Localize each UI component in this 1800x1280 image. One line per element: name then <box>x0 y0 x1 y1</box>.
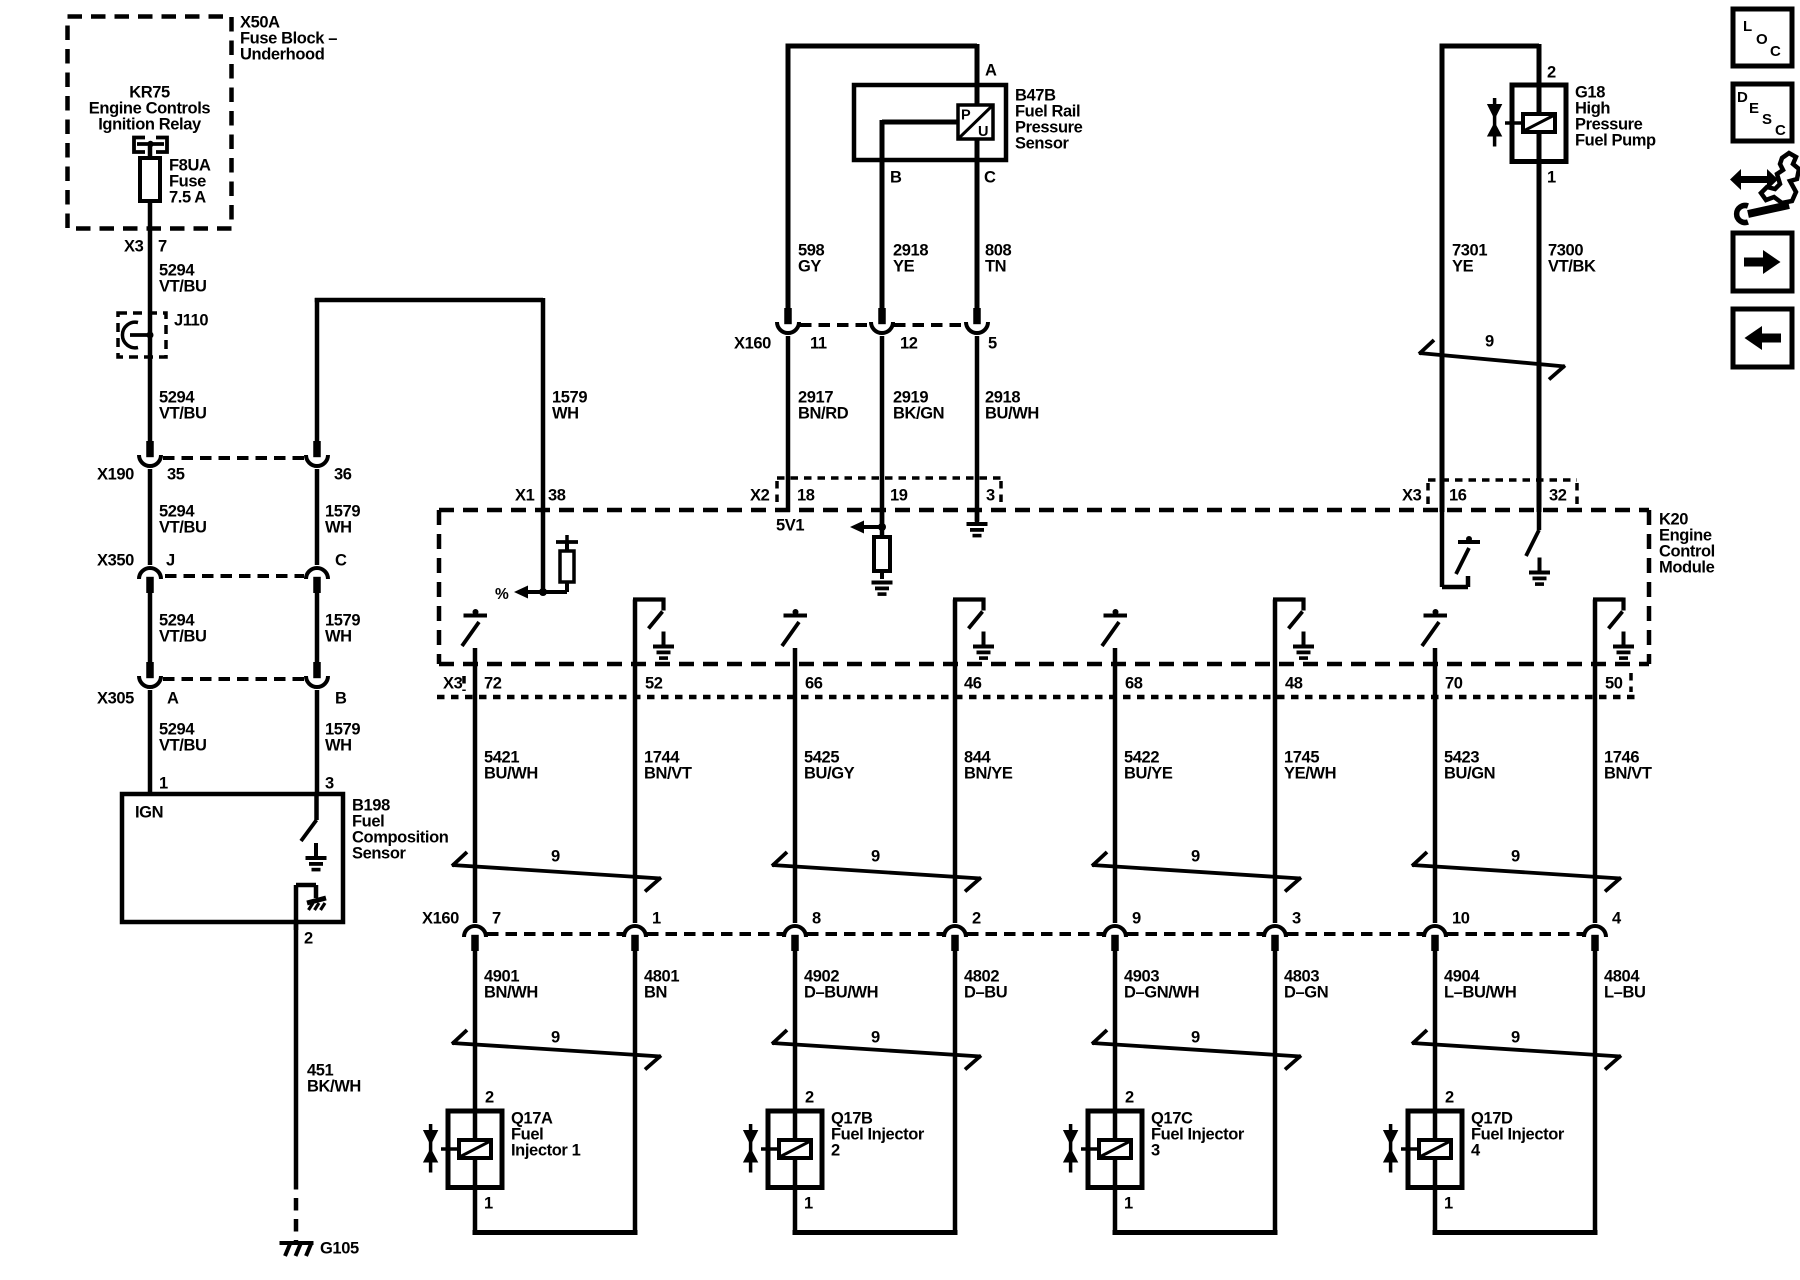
connector X1 pin 38 labels <box>515 486 566 504</box>
svg-text:BU/GY: BU/GY <box>804 764 855 782</box>
fuse block X50A dashed box <box>68 17 232 229</box>
harness crossing 9 (injector 3 wires lower) <box>1092 1028 1301 1069</box>
injector Q17A Fuel Injector 1 <box>423 1088 638 1232</box>
wire 1746 BN/VT (X160-4 to ECM) <box>1595 600 1652 924</box>
svg-text:D–GN/WH: D–GN/WH <box>1124 983 1199 1001</box>
ECM internal: ground at X2-3 <box>967 512 988 537</box>
harness crossing 9 (injector 1 wires lower) <box>452 1028 661 1069</box>
svg-text:GY: GY <box>798 257 821 275</box>
relay KR75 label <box>89 83 211 133</box>
wire 2918 BU/WH (X160-5 to X2-3) <box>977 336 1039 522</box>
svg-text:8: 8 <box>812 909 821 927</box>
svg-text:VT/BU: VT/BU <box>159 736 207 754</box>
svg-text:VT/BU: VT/BU <box>159 404 207 422</box>
svg-text:9: 9 <box>871 847 880 865</box>
icon DESC box <box>1733 84 1792 141</box>
svg-text:C: C <box>1775 122 1786 139</box>
wire 5294 VT/BU (X350-J to X305-A) <box>150 593 207 662</box>
svg-text:BN/RD: BN/RD <box>798 404 849 422</box>
icon forward arrow box <box>1733 233 1792 291</box>
svg-text:O: O <box>1756 31 1768 48</box>
label X50A Fuse Block - Underhood <box>240 13 337 63</box>
svg-text:9: 9 <box>871 1028 880 1046</box>
svg-text:IGN: IGN <box>135 803 163 821</box>
svg-text:10: 10 <box>1452 909 1470 927</box>
ECM internal: injector 3 driver at X3-68 <box>1102 609 1127 646</box>
svg-text:1: 1 <box>1547 168 1556 186</box>
svg-text:2: 2 <box>831 1141 840 1159</box>
svg-text:2: 2 <box>1445 1088 1454 1106</box>
connector X160 (sensor side) <box>734 308 997 352</box>
wire 4903 D–GN/WH (X160-9 to fuel injector 3) <box>1115 951 1199 1232</box>
icon back arrow box <box>1733 309 1792 367</box>
wire 5421 BU/WH (ECM to X160-7) <box>475 648 538 923</box>
svg-text:X350: X350 <box>97 551 134 569</box>
svg-text:B: B <box>890 168 902 186</box>
svg-text:3: 3 <box>986 486 995 504</box>
svg-text:4: 4 <box>1612 909 1622 927</box>
wire 5294 VT/BU (fuse to X190) <box>124 201 207 441</box>
svg-text:9: 9 <box>1132 909 1141 927</box>
svg-text:C: C <box>984 168 996 186</box>
svg-text:Sensor: Sensor <box>1015 134 1070 152</box>
ECM internal: injector 4 driver at X3-70 <box>1422 609 1447 646</box>
injector Q17C Fuel Injector 3 <box>1063 1088 1278 1232</box>
wire 4804 L–BU (fuel injector 4 to X160-4) <box>1595 951 1646 1233</box>
svg-text:66: 66 <box>805 674 823 692</box>
svg-text:X3: X3 <box>124 237 144 255</box>
harness crossing 9 (fuel pump wires) <box>1419 332 1565 379</box>
svg-text:S: S <box>1762 111 1772 128</box>
svg-text:BU/WH: BU/WH <box>985 404 1039 422</box>
svg-text:7: 7 <box>492 909 501 927</box>
fuse F8UA 7.5 A <box>140 146 211 206</box>
injector Q17D Fuel Injector 4 <box>1383 1088 1598 1232</box>
svg-text:D: D <box>1737 89 1748 106</box>
svg-text:Injector 1: Injector 1 <box>511 1141 581 1159</box>
svg-text:2: 2 <box>304 929 313 947</box>
svg-text:9: 9 <box>1191 847 1200 865</box>
svg-text:46: 46 <box>964 674 982 692</box>
svg-text:2: 2 <box>972 909 981 927</box>
wire 808 TN label <box>985 241 1012 275</box>
svg-text:16: 16 <box>1449 486 1467 504</box>
wire 2919 BK/GN (X160-12 to X2-19) <box>882 336 944 527</box>
svg-text:D–GN: D–GN <box>1284 983 1328 1001</box>
svg-text:YE: YE <box>893 257 915 275</box>
svg-text:WH: WH <box>325 627 352 645</box>
harness crossing 9 (injector 4 wires upper) <box>1412 847 1621 891</box>
wire 4902 D–BU/WH (X160-8 to fuel injector 2) <box>795 951 878 1232</box>
svg-text:YE/WH: YE/WH <box>1284 764 1336 782</box>
wire 5422 BU/YE (ECM to X160-9) <box>1115 648 1173 923</box>
svg-text:1: 1 <box>652 909 661 927</box>
ECM internal: pull-up resistor and % output at X1-38 <box>495 510 578 603</box>
svg-text:VT/BK: VT/BK <box>1548 257 1596 275</box>
wire 5425 BU/GY (ECM to X160-8) <box>795 648 855 923</box>
wire 1579 WH (X305-B to B198 pin 3) <box>317 690 360 794</box>
svg-text:9: 9 <box>551 1028 560 1046</box>
wire 1579 WH (X190-36 up and over to ECM X1-38) <box>315 298 588 510</box>
svg-text:2: 2 <box>1547 63 1556 81</box>
sensor B198 Fuel Composition Sensor <box>122 794 449 930</box>
svg-text:VT/BU: VT/BU <box>159 518 207 536</box>
svg-text:J: J <box>166 551 175 569</box>
svg-text:9: 9 <box>1485 332 1494 350</box>
svg-text:3: 3 <box>325 774 334 792</box>
svg-text:L–BU/WH: L–BU/WH <box>1444 983 1516 1001</box>
ground G105 <box>280 1239 359 1257</box>
svg-text:1: 1 <box>1124 1194 1133 1212</box>
wire 1744 BN/VT (X160-1 to ECM) <box>635 600 692 924</box>
svg-text:BU/YE: BU/YE <box>1124 764 1173 782</box>
svg-text:48: 48 <box>1285 674 1303 692</box>
connector X160 (injector harness) pin row <box>422 909 1622 951</box>
ECM internal: driver at X3-16 <box>1442 510 1480 587</box>
splice J110 <box>118 311 208 357</box>
wire 4803 D–GN (fuel injector 3 to X160-3) <box>1275 951 1328 1233</box>
svg-text:A: A <box>167 689 179 707</box>
harness crossing 9 (injector 2 wires upper) <box>772 847 981 891</box>
svg-text:X160: X160 <box>422 909 459 927</box>
connector X305 <box>97 662 347 707</box>
svg-text:36: 36 <box>334 465 352 483</box>
relay KR75 contact <box>134 138 167 153</box>
icon service tool <box>1730 153 1799 223</box>
svg-text:9: 9 <box>1511 847 1520 865</box>
svg-text:Ignition Relay: Ignition Relay <box>98 115 202 133</box>
svg-text:%: % <box>495 586 509 603</box>
svg-text:VT/BU: VT/BU <box>159 627 207 645</box>
svg-text:70: 70 <box>1445 674 1463 692</box>
svg-text:P: P <box>961 108 971 124</box>
connector X2 dotted box and labels <box>750 478 1001 534</box>
svg-text:18: 18 <box>797 486 815 504</box>
svg-text:7.5 A: 7.5 A <box>169 188 206 206</box>
harness crossing 9 (injector 4 wires lower) <box>1412 1028 1621 1069</box>
svg-text:E: E <box>1749 100 1759 117</box>
ECM internal: 5V1 reference arrow and resistor to ground at X2-19 <box>850 512 893 596</box>
svg-text:WH: WH <box>325 518 352 536</box>
svg-text:68: 68 <box>1125 674 1143 692</box>
svg-text:C: C <box>335 551 347 569</box>
svg-text:32: 32 <box>1549 486 1567 504</box>
svg-text:BN/WH: BN/WH <box>484 983 538 1001</box>
ECM internal: injector 1 low reference ground at X3-52 <box>633 598 674 660</box>
svg-text:X3: X3 <box>1402 486 1422 504</box>
harness crossing 9 (injector 1 wires upper) <box>452 847 661 891</box>
svg-text:BU/GN: BU/GN <box>1444 764 1495 782</box>
ECM internal: switch and ground at X3-32 <box>1526 510 1550 586</box>
wire 1745 YE/WH (X160-3 to ECM) <box>1275 600 1336 924</box>
wire 844 BN/YE (X160-2 to ECM) <box>955 600 1013 924</box>
svg-text:3: 3 <box>1292 909 1301 927</box>
svg-text:50: 50 <box>1605 674 1623 692</box>
module K20 Engine Control Module dashed outline <box>439 510 1715 664</box>
svg-text:5: 5 <box>988 334 997 352</box>
svg-text:G105: G105 <box>320 1239 359 1257</box>
svg-text:A: A <box>985 61 997 79</box>
svg-text:U: U <box>978 124 988 140</box>
wire 4801 BN (fuel injector 1 to X160-1) <box>635 951 679 1233</box>
wire 4904 L–BU/WH (X160-10 to fuel injector 4) <box>1435 951 1516 1232</box>
svg-text:BN/VT: BN/VT <box>644 764 692 782</box>
svg-text:Fuel Injector: Fuel Injector <box>831 1125 925 1143</box>
svg-text:WH: WH <box>552 404 579 422</box>
harness crossing 9 (injector 2 wires lower) <box>772 1028 981 1069</box>
wire 5294 VT/BU (X190-35 to X350-J) <box>150 469 207 565</box>
svg-text:X160: X160 <box>734 334 771 352</box>
svg-text:VT/BU: VT/BU <box>159 277 207 295</box>
ECM internal: injector 3 low reference ground at X3-48 <box>1273 598 1314 660</box>
svg-text:D–BU: D–BU <box>964 983 1007 1001</box>
svg-text:9: 9 <box>1511 1028 1520 1046</box>
svg-text:X3: X3 <box>443 674 463 692</box>
svg-text:Sensor: Sensor <box>352 844 407 862</box>
wire 598 GY label <box>798 241 825 275</box>
svg-text:2: 2 <box>1125 1088 1134 1106</box>
wire 4802 D–BU (fuel injector 2 to X160-2) <box>955 951 1007 1233</box>
svg-text:2: 2 <box>805 1088 814 1106</box>
svg-text:Fuel Pump: Fuel Pump <box>1575 131 1656 149</box>
svg-text:BK/GN: BK/GN <box>893 404 944 422</box>
svg-text:TN: TN <box>985 257 1006 275</box>
ECM internal: injector 2 driver at X3-66 <box>782 609 807 646</box>
svg-text:L: L <box>1743 18 1752 35</box>
svg-text:BK/WH: BK/WH <box>307 1077 361 1095</box>
motor G18 High Pressure Fuel Pump <box>1440 44 1657 512</box>
ECM internal: injector 1 driver at X3-72 <box>462 609 487 646</box>
svg-text:Fuel Injector: Fuel Injector <box>1151 1125 1245 1143</box>
svg-text:WH: WH <box>325 736 352 754</box>
wire 2917 BN/RD (X160-11 to X2-18) <box>788 336 849 512</box>
svg-text:C: C <box>1770 43 1781 60</box>
connector X350 <box>97 551 347 593</box>
svg-text:2: 2 <box>485 1088 494 1106</box>
wire 1579 WH (X190-36 to X350-C) <box>317 469 360 565</box>
svg-text:19: 19 <box>890 486 908 504</box>
wire 451 BK/WH (B198 pin 2 to G105) <box>296 922 361 1242</box>
svg-text:X305: X305 <box>97 689 134 707</box>
wire 7300 VT/BK label <box>1548 241 1596 275</box>
svg-text:BN/VT: BN/VT <box>1604 764 1652 782</box>
svg-text:4: 4 <box>1471 1141 1481 1159</box>
svg-text:1: 1 <box>484 1194 493 1212</box>
wire 1579 WH (X350-C to X305-B) <box>317 593 360 662</box>
svg-text:Underhood: Underhood <box>240 45 324 63</box>
svg-text:L–BU: L–BU <box>1604 983 1646 1001</box>
svg-text:7: 7 <box>158 237 167 255</box>
svg-text:J110: J110 <box>174 311 208 329</box>
wire 2918 YE label <box>893 241 928 275</box>
svg-text:5V1: 5V1 <box>776 516 804 534</box>
svg-text:BN: BN <box>644 983 667 1001</box>
connector X3 (ECM bottom) dotted pin row <box>437 673 1638 697</box>
svg-text:52: 52 <box>645 674 663 692</box>
harness crossing 9 (injector 3 wires upper) <box>1092 847 1301 891</box>
svg-text:D–BU/WH: D–BU/WH <box>804 983 878 1001</box>
svg-text:YE: YE <box>1452 257 1474 275</box>
svg-text:35: 35 <box>167 465 185 483</box>
svg-text:X1: X1 <box>515 486 535 504</box>
wire 5294 VT/BU (X305-A to B198 pin 1) <box>150 690 207 794</box>
connector X3 (ECM top) dotted box and labels <box>1402 480 1577 506</box>
svg-text:BN/YE: BN/YE <box>964 764 1013 782</box>
ECM internal: injector 2 low reference ground at X3-46 <box>953 598 994 660</box>
ECM internal: injector 4 low reference ground at X3-50 <box>1593 598 1634 660</box>
connector X190 <box>97 441 352 483</box>
svg-text:1: 1 <box>1444 1194 1453 1212</box>
svg-text:9: 9 <box>551 847 560 865</box>
svg-text:Fuel Injector: Fuel Injector <box>1471 1125 1565 1143</box>
svg-text:B: B <box>335 689 347 707</box>
wire 5423 BU/GN (ECM to X160-10) <box>1435 648 1495 923</box>
wire 7301 YE label <box>1452 241 1487 275</box>
svg-text:BU/WH: BU/WH <box>484 764 538 782</box>
wire 4901 BN/WH (X160-7 to fuel injector 1) <box>475 951 538 1232</box>
svg-text:38: 38 <box>548 486 566 504</box>
sensor B47B Fuel Rail Pressure Sensor <box>786 44 1083 308</box>
svg-text:X2: X2 <box>750 486 770 504</box>
svg-text:X190: X190 <box>97 465 134 483</box>
injector Q17B Fuel Injector 2 <box>743 1088 958 1232</box>
svg-text:9: 9 <box>1191 1028 1200 1046</box>
svg-text:1: 1 <box>804 1194 813 1212</box>
svg-text:3: 3 <box>1151 1141 1160 1159</box>
svg-text:12: 12 <box>900 334 918 352</box>
svg-text:11: 11 <box>810 334 827 352</box>
icon LOC box <box>1733 9 1792 66</box>
svg-text:1: 1 <box>159 774 168 792</box>
svg-text:72: 72 <box>484 674 502 692</box>
svg-text:Module: Module <box>1659 558 1715 576</box>
